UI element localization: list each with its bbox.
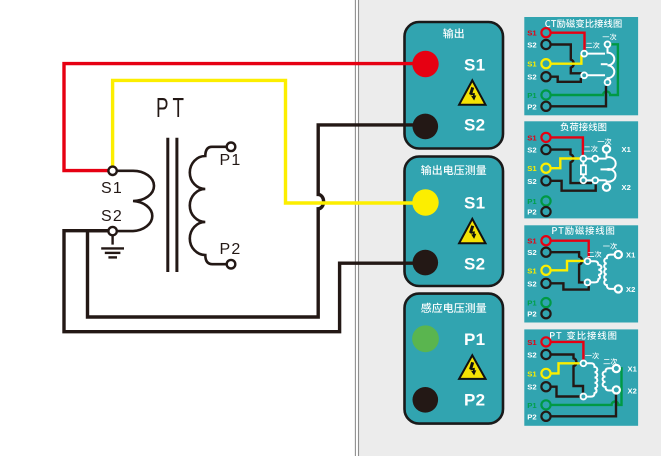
svg-text:P2: P2 [527,208,536,217]
wire yellow: PT S1 to panel VOLTAGE S1 [113,80,426,203]
terminal P2 of CT-RATIO [541,102,550,111]
svg-text:S2: S2 [527,177,536,186]
label erci (secondary) [586,42,600,49]
transformer PT core (two bars) [168,138,177,272]
PT-RATIO secondary winding (C-shape, petals left) [603,368,613,390]
PT-RATIO primary winding (C-shape, petals right) [587,363,598,396]
terminal P1 of CT-RATIO [541,90,550,99]
terminal circle S2 of panel OUTPUT-VOLTAGE [413,250,439,276]
ground symbol at S2 [101,235,124,257]
node links left-right [586,159,606,181]
svg-text:S2: S2 [527,351,536,360]
wire red: PT S1 to panel OUTPUT S1 [64,64,426,171]
svg-text:S1: S1 [464,56,485,75]
wire red S1 to load top (LOAD) [551,137,583,155]
panel OUTPUT (shuchu) title [443,28,464,38]
svg-text:S2: S2 [527,73,536,82]
terminal X1 (PT-RATIO) [613,365,620,372]
wire red S1 to secondary top (CT-RATIO) [551,33,585,51]
svg-text:S2: S2 [527,41,536,50]
svg-text:X2: X2 [626,285,635,294]
background right grey region [359,0,661,456]
wire black S2 to secondary bottom (CT-RATIO) [551,45,582,74]
node line secondary top [587,53,605,55]
svg-text:S1: S1 [527,237,537,246]
terminal X1 (PT-EXC) [615,251,622,258]
LOAD mini winding [607,154,616,183]
label yici [603,243,617,250]
svg-text:S1: S1 [527,29,537,38]
panel LOAD body [524,121,638,218]
wire yellow S1 to primary top (PT-RATIO) [551,363,580,373]
wire black P2 to primary bottom (CT-RATIO) [551,86,606,106]
wire yellow S1 to load top (LOAD) [551,159,580,169]
terminal S2 of PT-EXC [541,248,550,257]
load resistor [581,165,586,174]
svg-text:S1: S1 [527,133,537,142]
warning triangle of panel OUTPUT (shuchu) [459,80,485,104]
warning triangle of panel INDUCED-VOLTAGE [459,355,485,379]
svg-text:S1: S1 [527,60,537,69]
terminal S1 of PT-EXC [541,236,550,245]
svg-text:S2: S2 [527,248,536,257]
label yici (primary) [603,34,617,41]
resistor leads [582,162,584,178]
terminal P1 of PT [227,143,236,152]
svg-text:P2: P2 [220,241,242,258]
wire black S2b to winding bottom (LOAD) [551,181,596,191]
svg-text:X2: X2 [622,183,631,192]
terminal S2 of CT-RATIO [541,40,550,49]
wire black S2 to primary bottom (PT-RATIO) [551,355,583,393]
node primary bottom [581,394,587,400]
CT mini transformer winding [608,47,615,79]
node secondary bottom [585,280,591,286]
PT-EXC secondary winding (C-shape, petals right) [591,261,602,282]
terminal P2 of PT-RATIO [541,412,550,421]
wire black S2b to secondary bottom (PT-EXC) [551,283,589,289]
wire yellow S1 to secondary top (CT-RATIO) [551,55,581,64]
wire black B: PT S2 to panel VOLTAGE S2 (outer loop) [64,231,425,332]
panel INDUCED-VOLTAGE title [421,303,486,313]
wire black S2 to secondary bottom (PT-EXC) [551,252,584,282]
terminal S2 of PT-EXC [541,279,550,288]
svg-text:PT: PT [156,92,188,123]
node primary top [581,360,587,366]
svg-text:S1: S1 [527,266,537,275]
svg-text:S2: S2 [101,208,123,225]
terminal X2 (PT-EXC) [615,285,622,292]
svg-text:S2: S2 [464,254,485,273]
label yici [585,352,599,359]
wire black A: PT S2 to panel OUTPUT S2 (inner loop, jog over yellow) [88,125,426,317]
svg-text:P1: P1 [464,330,485,349]
svg-text:P2: P2 [527,102,536,111]
terminal P2 of PT-EXC [541,309,550,318]
wire green P1 to X1 (PT-RATIO) [551,368,622,405]
node secondary top terminal [581,51,587,57]
svg-text:P2: P2 [527,310,536,319]
terminal S1 of PT [108,167,116,175]
svg-text:S2: S2 [464,116,485,135]
wire black S2b to secondary bottom (CT-RATIO) [551,77,581,82]
svg-text:S1: S1 [101,180,123,197]
terminal S1 of LOAD [541,164,550,173]
LOAD winding tick [601,168,607,170]
svg-text:P2: P2 [464,390,485,409]
terminal S2 of LOAD [541,145,550,154]
PT-EXC primary winding (C-shape, petals left) [604,255,615,289]
panel LOAD title [560,122,606,131]
terminal S2 of PT-RATIO [541,382,550,391]
svg-text:S1: S1 [527,369,537,378]
svg-text:P1: P1 [527,401,537,410]
panel CT-RATIO title [545,19,621,28]
svg-text:X1: X1 [622,145,632,154]
terminal S1 of CT-RATIO [541,28,550,37]
separator double rail left line [354,0,356,456]
svg-text:S1: S1 [464,194,485,213]
panel OUTPUT-VOLTAGE title [421,165,486,175]
svg-text:P1: P1 [527,299,537,308]
wire black S2 to load bottom (LOAD) [551,150,592,184]
terminal P2 of PT [227,260,236,269]
panel PT-RATIO body [524,329,638,425]
panel PT-EXC body [524,225,638,322]
terminal P1 of LOAD [541,196,550,205]
terminal circle S2 of panel OUTPUT (shuchu) [413,114,439,140]
svg-text:P1: P1 [527,91,537,100]
PT primary winding (right, P1-P2) [190,147,228,264]
node primary bottom terminal [605,79,611,85]
terminal S1 of LOAD [541,133,550,142]
terminal S1 of PT-RATIO [541,337,550,346]
terminal S2 of CT-RATIO [541,72,550,81]
separator double rail right line [358,0,360,456]
terminal S1 of PT-EXC [541,266,550,275]
panel PT-RATIO title [550,331,616,340]
svg-text:S2: S2 [527,146,536,155]
svg-text:X2: X2 [628,387,637,396]
terminal circle P1 of panel INDUCED-VOLTAGE [412,325,439,352]
node secondary bottom terminal [581,72,587,78]
PT secondary winding (left, S1-S2) [115,171,154,231]
label erci [604,358,618,365]
wire red S1 to primary top (PT-RATIO) [551,342,583,360]
svg-text:P1: P1 [527,197,537,206]
label erci [588,251,602,258]
terminal circle S1 of panel OUTPUT (shuchu) [412,51,438,77]
svg-text:S1: S1 [527,164,537,173]
warning triangle of panel OUTPUT-VOLTAGE [459,219,485,244]
terminal X2 (LOAD) [603,184,610,191]
wire black S2b to primary bottom (PT-RATIO) [551,387,580,397]
node primary top terminal [605,41,611,47]
terminal S2 of PT-RATIO [541,350,550,359]
wire red S1 to secondary top (PT-EXC) [551,241,589,258]
svg-text:X1: X1 [626,251,636,260]
panel OUTPUT (shuchu) body [405,22,504,149]
node line secondary bottom [587,74,605,76]
node secondary top [585,258,591,264]
terminal S2 of PT [108,227,116,235]
panel OUTPUT-VOLTAGE body [405,157,504,287]
terminal P2 of LOAD [541,207,550,216]
label yici [598,138,612,145]
wire yellow S1 to secondary top (PT-EXC) [551,261,584,270]
node rings LOAD [581,156,587,162]
terminal circle S1 of panel OUTPUT-VOLTAGE [412,189,438,215]
panel INDUCED-VOLTAGE body [405,294,504,424]
terminal circle P2 of panel INDUCED-VOLTAGE [413,387,439,413]
svg-text:X1: X1 [628,364,638,373]
terminal S2 of LOAD [541,176,550,185]
terminal S1 of CT-RATIO [541,59,550,68]
panel PT-EXC title [552,226,614,235]
terminal S1 of PT-RATIO [541,369,550,378]
terminal X1 (LOAD) [603,146,610,153]
svg-text:P1: P1 [220,152,242,169]
svg-text:S2: S2 [527,383,536,392]
label erci [584,146,598,153]
svg-text:S2: S2 [527,279,536,288]
svg-text:P2: P2 [527,412,536,421]
wire black P2 to X2 (PT-RATIO) [551,395,616,417]
svg-text:S1: S1 [527,338,537,347]
terminal X2 (PT-RATIO) [613,386,620,393]
CT mini winding core tick [601,63,608,65]
panel CT-RATIO body [524,17,638,115]
terminal P1 of PT-EXC [541,298,550,307]
wire green P1 to primary top (CT-RATIO) [551,44,618,95]
terminal P1 of PT-RATIO [541,400,550,409]
